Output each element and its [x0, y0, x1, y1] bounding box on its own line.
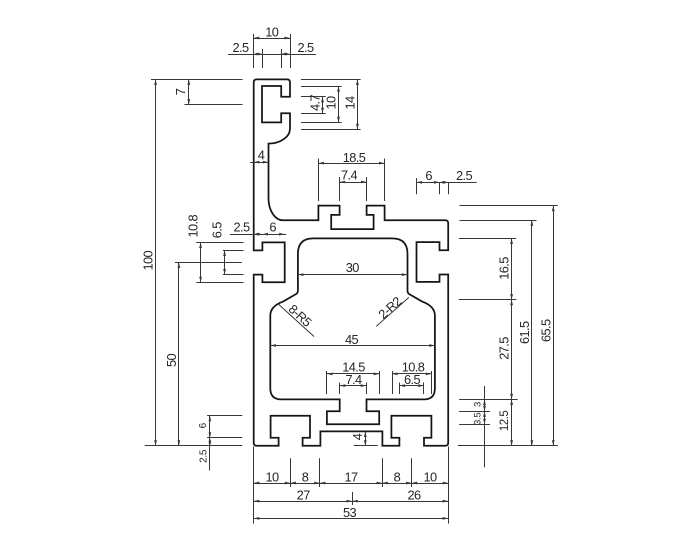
svg-text:26: 26	[407, 488, 421, 503]
svg-text:61.5: 61.5	[517, 321, 532, 344]
svg-text:10: 10	[324, 96, 339, 110]
svg-text:2.5: 2.5	[199, 449, 210, 463]
svg-text:12.5: 12.5	[499, 411, 511, 431]
svg-text:7.4: 7.4	[346, 372, 362, 387]
svg-text:7.4: 7.4	[341, 168, 357, 183]
svg-text:30: 30	[346, 260, 360, 275]
svg-text:50: 50	[164, 354, 179, 368]
svg-text:45: 45	[345, 332, 359, 347]
svg-text:8: 8	[394, 470, 401, 485]
svg-text:10: 10	[265, 470, 279, 485]
svg-text:4: 4	[350, 433, 365, 440]
svg-text:6.5: 6.5	[210, 222, 225, 238]
svg-text:4: 4	[258, 148, 265, 163]
svg-text:8: 8	[302, 470, 309, 485]
svg-text:6: 6	[198, 422, 209, 428]
svg-text:14: 14	[342, 96, 357, 110]
svg-text:18.5: 18.5	[343, 150, 366, 165]
svg-text:17: 17	[344, 470, 358, 485]
svg-text:4.7: 4.7	[308, 95, 323, 111]
svg-text:16.5: 16.5	[497, 257, 512, 280]
svg-text:10.8: 10.8	[186, 215, 201, 238]
svg-text:65.5: 65.5	[538, 319, 553, 342]
svg-text:2.5: 2.5	[298, 40, 314, 55]
svg-text:100: 100	[141, 250, 156, 270]
svg-text:3: 3	[472, 402, 483, 407]
svg-text:2.5: 2.5	[233, 40, 249, 55]
svg-text:2.5: 2.5	[234, 220, 250, 235]
svg-text:10: 10	[423, 470, 437, 485]
svg-text:7: 7	[173, 88, 188, 95]
svg-text:10: 10	[265, 24, 279, 39]
svg-text:6.5: 6.5	[404, 372, 420, 387]
svg-text:2.5: 2.5	[456, 168, 472, 183]
svg-text:6: 6	[425, 168, 432, 183]
svg-text:6: 6	[269, 220, 276, 235]
svg-text:3.5: 3.5	[472, 413, 483, 425]
svg-text:53: 53	[343, 505, 357, 520]
svg-text:27: 27	[297, 488, 311, 503]
svg-text:27.5: 27.5	[497, 337, 512, 360]
